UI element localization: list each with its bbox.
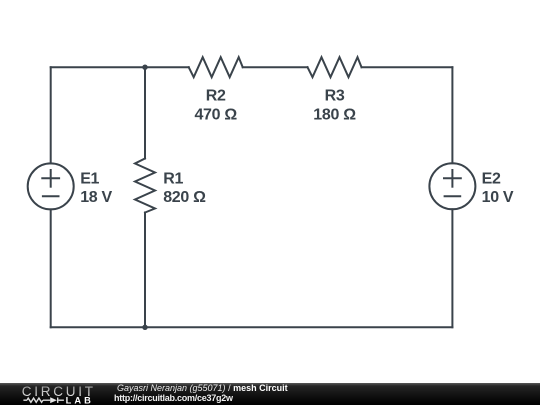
svg-text:470 Ω: 470 Ω [194, 106, 237, 123]
svg-text:E1: E1 [80, 170, 99, 187]
svg-text:R3: R3 [325, 88, 345, 105]
svg-text:R2: R2 [206, 88, 226, 105]
svg-text:180 Ω: 180 Ω [313, 106, 356, 123]
svg-text:10 V: 10 V [482, 189, 514, 206]
svg-text:R1: R1 [163, 170, 183, 187]
svg-text:E2: E2 [482, 170, 501, 187]
svg-text:820 Ω: 820 Ω [163, 189, 206, 206]
svg-text:18 V: 18 V [80, 189, 112, 206]
svg-text:LAB: LAB [66, 396, 94, 405]
